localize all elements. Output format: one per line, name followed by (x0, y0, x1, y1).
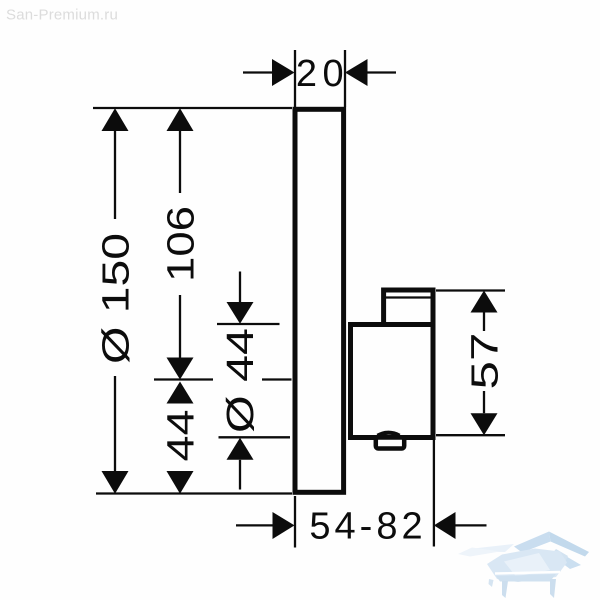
dimension 44 arrows (167, 382, 194, 404)
dimension 106 line (179, 131, 181, 358)
arrow Ø44 bottom (227, 438, 254, 460)
dimension 57 extension lines (436, 291, 505, 436)
plate (side view) (295, 109, 344, 492)
arrow 57 top (471, 291, 498, 313)
bottom tab (376, 438, 404, 449)
arrow 106 bottom (167, 358, 194, 380)
svg-text:57: 57 (465, 333, 507, 390)
valve body (351, 325, 434, 438)
dimension Ø44 ticks (217, 272, 290, 490)
top reference line (93, 107, 292, 109)
arrow 54-82 right (434, 512, 456, 539)
dimension 54-82 extension lines (236, 440, 487, 548)
svg-text:44: 44 (161, 410, 203, 462)
bottom reference line (96, 492, 292, 494)
tick centerline (154, 378, 292, 380)
arrow 20 left (272, 59, 295, 86)
logo watermark bottom right (458, 532, 589, 599)
svg-text:106: 106 (161, 206, 203, 282)
arrow 57 bottom (471, 413, 498, 435)
dimension 20 extension lines (243, 50, 396, 107)
svg-text:San-Premium.ru: San-Premium.ru (6, 7, 118, 24)
dimension Ø150 line (114, 131, 116, 471)
knob inner line (386, 296, 431, 298)
bottom tab arc (378, 433, 400, 436)
arrow 54-82 left (273, 512, 295, 539)
svg-text:Ø 44: Ø 44 (220, 328, 262, 433)
svg-text:54-82: 54-82 (309, 506, 426, 548)
svg-text:20: 20 (296, 53, 349, 95)
handle knob (384, 290, 433, 335)
arrow Ø150 bottom (102, 471, 129, 494)
arrow Ø150 top (102, 108, 129, 131)
arrow 20 right (345, 59, 368, 86)
svg-text:Ø 150: Ø 150 (96, 233, 138, 364)
arrow 106 top (167, 108, 194, 131)
arrow Ø44 top (227, 302, 254, 324)
